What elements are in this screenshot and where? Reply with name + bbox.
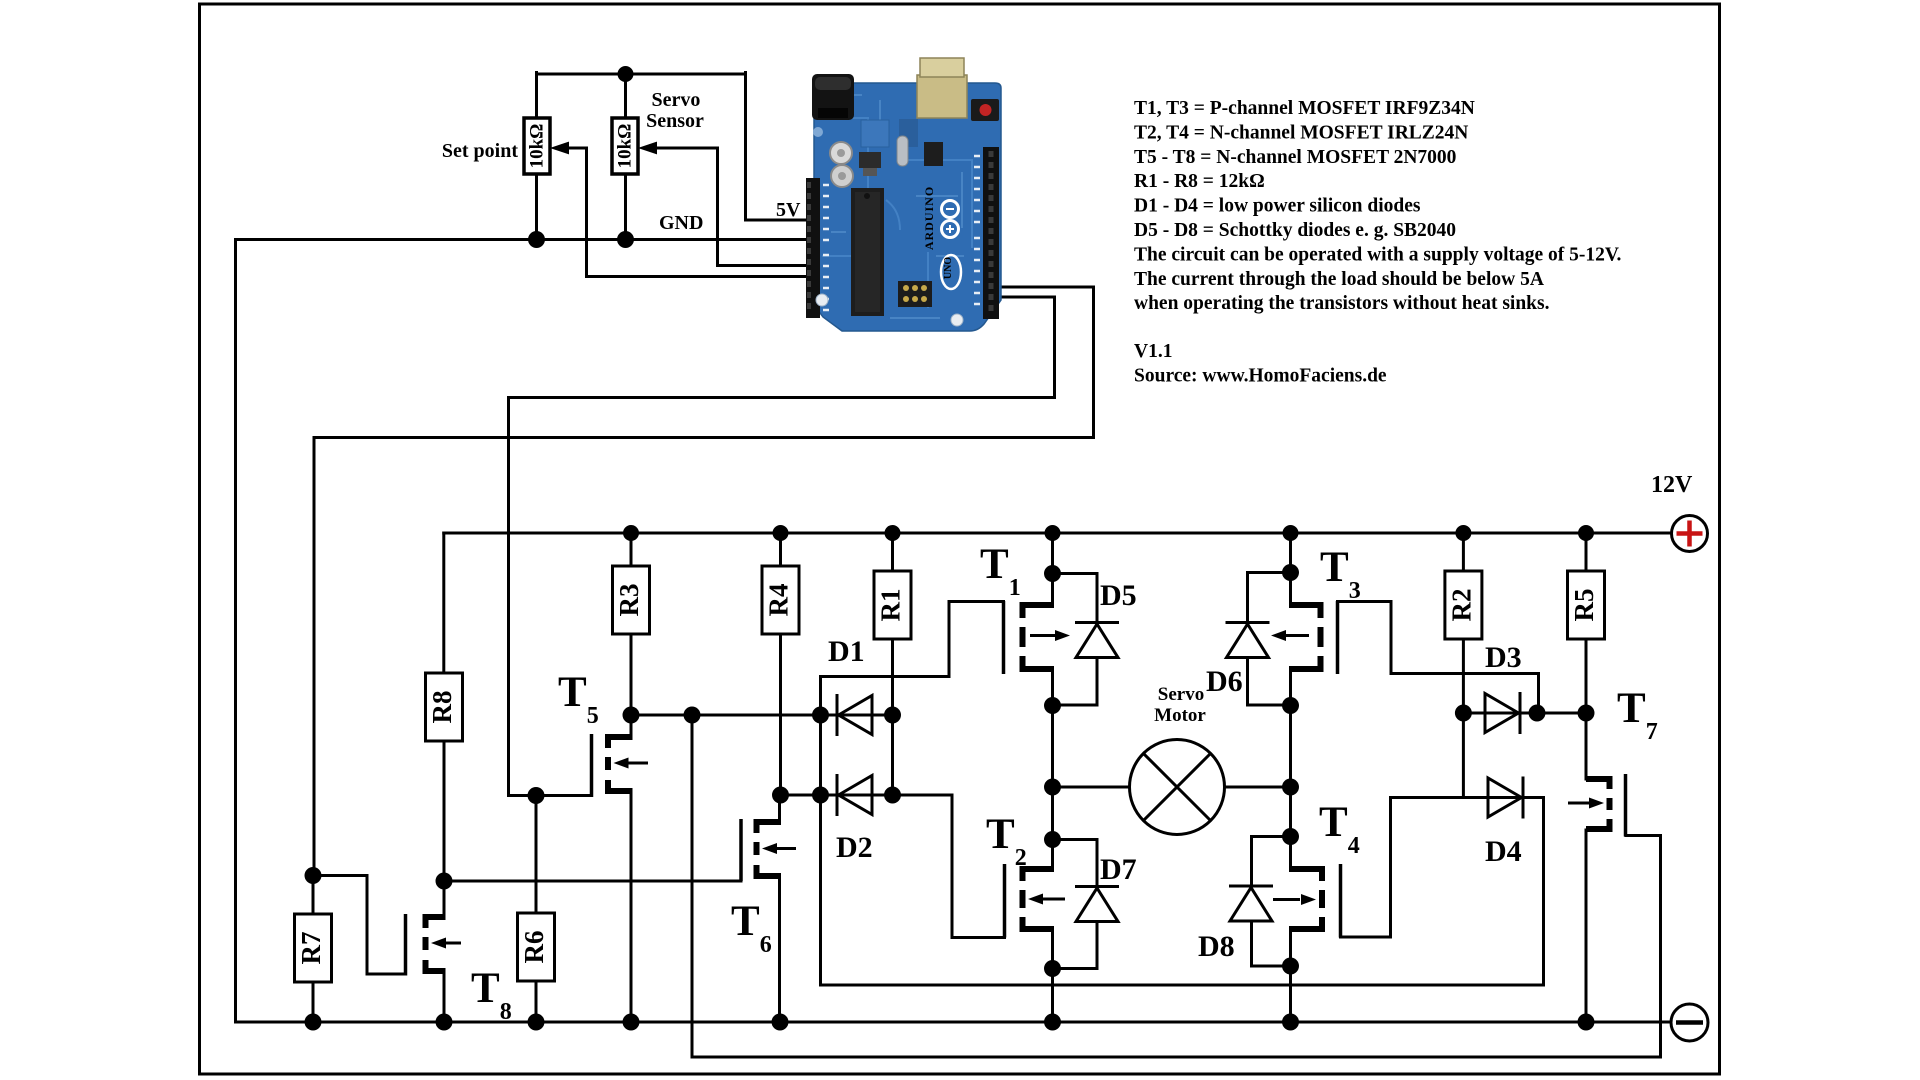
resistor R6 bottom lead: [535, 981, 538, 1022]
diode D6 bottom lead: [1248, 658, 1291, 706]
diode D8: [1229, 886, 1273, 921]
transistor T2: [1005, 864, 1066, 938]
left pin header: [806, 178, 820, 318]
node T3 source: [1282, 564, 1299, 581]
node rail R5: [1578, 525, 1594, 541]
resistor R7 top lead: [312, 876, 315, 915]
transistor T3 drain lead: [1289, 669, 1292, 706]
wire node row D4: [1463, 796, 1543, 799]
barrel jack: [812, 74, 854, 120]
svg-text:UNO: UNO: [943, 257, 954, 279]
note text block: [1134, 98, 1621, 387]
resistor R4 top lead: [779, 533, 782, 566]
svg-text:GND: GND: [659, 212, 703, 234]
electrolytic capacitors: [830, 142, 852, 164]
transistor T5: [592, 715, 649, 1022]
node R8 T8 drain: [436, 873, 453, 890]
svg-text:D1: D1: [828, 635, 865, 668]
wire cross-coupling T5 drain to T7 gate: [692, 715, 1661, 1057]
resistor R7 bottom lead: [312, 982, 315, 1022]
pin labels white marks: [823, 185, 829, 310]
reset button: [971, 99, 999, 121]
diode D7: [1075, 887, 1119, 922]
wire top pot supply: [537, 73, 746, 76]
svg-text:Motor: Motor: [1154, 705, 1206, 726]
svg-text:Set point: Set point: [442, 140, 518, 162]
diode D5 top lead: [1053, 574, 1098, 623]
border frame: [200, 4, 1720, 1074]
svg-text:Source: www.HomoFaciens.de: Source: www.HomoFaciens.de: [1134, 366, 1387, 387]
node rail R4: [773, 525, 789, 541]
wire node row D1: [631, 714, 893, 717]
node GND T7: [1578, 1014, 1595, 1031]
diode D1: [837, 694, 872, 736]
ICSP header: [898, 281, 932, 307]
svg-text:R1: R1: [876, 589, 906, 622]
Arduino Uno board photo: [806, 58, 1001, 331]
small IC: [924, 142, 943, 166]
node R7 top: [305, 867, 322, 884]
resistor R7: [295, 914, 332, 982]
resistor R6 top lead: [535, 796, 538, 914]
node D3 row R5: [1578, 705, 1595, 722]
svg-text:10kΩ: 10kΩ: [615, 124, 636, 169]
resistor R4 bottom lead: [779, 634, 782, 795]
svg-text:D5: D5: [1100, 579, 1137, 612]
node T5 gate R6: [528, 787, 545, 804]
diode D6 top lead: [1248, 573, 1291, 623]
diode D4: [1488, 777, 1523, 819]
svg-text:ARDUINO: ARDUINO: [922, 186, 936, 250]
svg-text:The current through the load s: The current through the load should be b…: [1134, 269, 1544, 290]
wire set point wiper to Arduino A1: [568, 148, 813, 277]
resistor R5 bottom lead: [1585, 639, 1588, 713]
transistor T3: [1271, 601, 1338, 674]
resistor R3 top lead: [630, 533, 633, 566]
transistor T1 drain lead: [1051, 669, 1054, 706]
wire T1 drain to motor node: [1051, 706, 1054, 840]
node GND T8: [436, 1014, 453, 1031]
wire T4 gate: [1341, 798, 1464, 938]
resistor R2 top lead: [1462, 533, 1465, 571]
node T2 source D7: [1044, 960, 1061, 977]
crystal: [897, 136, 908, 166]
diode D8 bottom lead: [1252, 921, 1291, 966]
svg-text:The circuit can be operated wi: The circuit can be operated with a suppl…: [1134, 244, 1621, 265]
svg-text:5V: 5V: [776, 199, 801, 221]
node T3 drain D6: [1282, 697, 1299, 714]
node T2 drain D7: [1044, 831, 1061, 848]
node D1 row anode: [812, 707, 829, 724]
svg-text:D6: D6: [1206, 665, 1243, 698]
wire node row D3: [1463, 712, 1586, 715]
node GND T5: [623, 1014, 640, 1031]
wire T3 gate: [1338, 602, 1539, 714]
resistor R8 bottom lead: [443, 741, 446, 881]
svg-text:R1 - R8 = 12kΩ: R1 - R8 = 12kΩ: [1134, 171, 1265, 192]
node GND R6: [528, 1014, 545, 1031]
diode D3: [1485, 692, 1520, 734]
wire T2 source to ground rail: [1051, 969, 1054, 1023]
node GND R7: [305, 1014, 322, 1031]
transistor T7: [1568, 774, 1626, 837]
svg-text:12V: 12V: [1651, 472, 1693, 498]
node pot supply junction: [618, 66, 634, 82]
node rail R1: [885, 525, 901, 541]
terminal minus: [1671, 1004, 1708, 1041]
node D1 row T7 link: [684, 707, 701, 724]
svg-text:Servo: Servo: [652, 89, 701, 111]
resistor R8 top lead: [442, 533, 445, 673]
node D2 row anode: [812, 787, 829, 804]
node T1 drain D5: [1044, 697, 1061, 714]
transistor T3 source lead: [1289, 573, 1292, 606]
resistor R5 top lead: [1585, 533, 1588, 571]
wire motor right lead: [1225, 786, 1291, 789]
wire servo sensor wiper to Arduino A0: [656, 148, 812, 266]
svg-text:10kΩ: 10kΩ: [527, 124, 548, 169]
diode D7 bottom lead: [1053, 922, 1098, 969]
wire D2 anode column to D4 row cross link: [821, 715, 1544, 985]
resistor R1 top lead: [891, 533, 894, 571]
wire node row D2: [781, 794, 953, 797]
resistor R2 bottom lead: [1462, 639, 1465, 798]
svg-text:D8: D8: [1198, 930, 1235, 963]
wire Arduino pin3 to T8 gate network: [314, 287, 1094, 876]
node P2 GND: [617, 231, 634, 248]
potentiometer P1 bottom lead: [535, 174, 538, 240]
resistor R5: [1568, 571, 1605, 639]
diode D5: [1075, 623, 1119, 658]
wire T4 source to ground rail: [1289, 966, 1292, 1022]
svg-text:T5 - T8 = N-channel MOSFET 2N7: T5 - T8 = N-channel MOSFET 2N7000: [1134, 147, 1456, 168]
transistor T1: [1004, 601, 1071, 674]
wire 5V to Arduino: [746, 73, 813, 221]
UNO oval: [941, 255, 961, 289]
svg-text:T1, T3 = P-channel MOSFET IRF9: T1, T3 = P-channel MOSFET IRF9Z34N: [1134, 98, 1475, 119]
node D2 row R1: [884, 787, 901, 804]
transistor T7 source lead: [1585, 830, 1588, 1022]
wire 12V supply rail: [444, 532, 1672, 535]
svg-text:T2, T4 = N-channel MOSFET IRLZ: T2, T4 = N-channel MOSFET IRLZ24N: [1134, 122, 1468, 143]
diode D8 top lead: [1252, 837, 1291, 887]
node T4 drain D8: [1282, 828, 1299, 845]
wire T1 gate: [821, 602, 1004, 716]
svg-text:R4: R4: [764, 584, 794, 617]
transistor T2 source lead: [1051, 929, 1054, 969]
node GND T2: [1044, 1014, 1061, 1031]
screw holes: [816, 294, 828, 306]
svg-text:D2: D2: [836, 831, 873, 864]
wire GND rail (pots, left drop, bottom rail to minus terminal): [236, 240, 1672, 1023]
svg-text:R8: R8: [427, 691, 457, 724]
node rail T3: [1283, 525, 1299, 541]
node rail R2: [1455, 525, 1471, 541]
node motor left: [1044, 779, 1061, 796]
resistor R1 bottom lead: [891, 639, 894, 795]
svg-text:D4: D4: [1485, 835, 1522, 868]
diode D6: [1226, 623, 1270, 658]
node T1 source: [1044, 565, 1061, 582]
node GND T6: [772, 1014, 789, 1031]
svg-text:D3: D3: [1485, 641, 1522, 674]
wire T6 gate: [444, 880, 741, 883]
transistor T7 drain lead: [1585, 713, 1588, 779]
transistor T1 source lead: [1051, 574, 1054, 606]
svg-text:R5: R5: [1569, 589, 1599, 622]
svg-text:R7: R7: [296, 932, 326, 965]
svg-text:D1 - D4 = low power silicon di: D1 - D4 = low power silicon diodes: [1134, 196, 1421, 217]
potentiometer P1 Set point 10k: [524, 118, 568, 174]
svg-text:when operating the transistors: when operating the transistors without h…: [1134, 293, 1550, 314]
wire Arduino pin2 to T5 gate: [509, 297, 1055, 796]
node D3 row T3 gate: [1529, 705, 1546, 722]
svg-text:V1.1: V1.1: [1134, 341, 1172, 362]
potentiometer P1 top lead: [535, 73, 538, 119]
terminal 12V plus: [1672, 516, 1708, 552]
transistor T4 source lead: [1289, 929, 1292, 966]
potentiometer P2 bottom lead: [624, 174, 627, 240]
svg-text:Sensor: Sensor: [646, 110, 704, 132]
wire motor left lead: [1053, 786, 1130, 789]
resistor R2: [1445, 571, 1482, 639]
transistor T2 drain lead: [1051, 840, 1054, 870]
wire T3 drain to motor node: [1289, 706, 1292, 837]
voltage regulator: [859, 152, 881, 168]
node D3 row R2: [1455, 705, 1472, 722]
svg-text:D5 - D8 = Schottky diodes e. g: D5 - D8 = Schottky diodes e. g. SB2040: [1134, 220, 1456, 241]
ATmega DIP chip: [851, 188, 884, 316]
node motor right: [1282, 779, 1299, 796]
diode D7 top lead: [1053, 840, 1098, 887]
transistor T8: [406, 881, 462, 1022]
transistor T6: [741, 795, 796, 1022]
resistor R3 bottom lead: [630, 634, 633, 715]
node D2 row T6 drain: [772, 787, 789, 804]
node D1 row R3: [623, 707, 640, 724]
wire T8 gate Z-link: [313, 876, 404, 975]
potentiometer P2 top lead: [624, 73, 627, 119]
resistor R4: [762, 566, 799, 634]
svg-text:R6: R6: [519, 931, 549, 964]
transistor T4 drain lead: [1289, 837, 1292, 870]
resistor R3: [613, 566, 650, 634]
potentiometer P2 Servo Sensor 10k: [612, 118, 656, 174]
node P1 GND: [528, 231, 545, 248]
diode D2: [837, 774, 872, 816]
USB connector: [917, 75, 967, 118]
servo motor M1: [1130, 740, 1225, 835]
Arduino infinity logo: [942, 201, 959, 218]
svg-text:R2: R2: [1446, 589, 1476, 622]
wire T2 gate: [952, 795, 1005, 938]
node D1 row R1: [884, 707, 901, 724]
right pin header: [983, 147, 999, 319]
node GND T4: [1282, 1014, 1299, 1031]
svg-text:D7: D7: [1100, 853, 1137, 886]
wire T1 column 12V to source node: [1051, 533, 1054, 574]
diode D5 bottom lead: [1053, 658, 1098, 706]
svg-text:Servo: Servo: [1158, 684, 1204, 705]
transistor T4: [1273, 864, 1341, 938]
resistor R6: [518, 913, 555, 981]
svg-text:R3: R3: [614, 584, 644, 617]
resistor R8: [426, 673, 463, 741]
wire T3 column 12V to source node: [1289, 533, 1292, 573]
node T4 source D8: [1282, 958, 1299, 975]
node rail R3: [623, 525, 639, 541]
node rail T1: [1045, 525, 1061, 541]
resistor R1: [874, 571, 911, 639]
